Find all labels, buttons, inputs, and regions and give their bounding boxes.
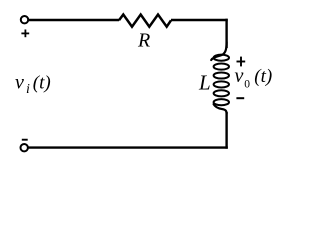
svg-text:i: i — [26, 82, 30, 97]
svg-text:L: L — [198, 71, 211, 95]
svg-text:v: v — [15, 72, 24, 94]
svg-text:(t): (t) — [254, 66, 272, 87]
svg-text:v: v — [235, 65, 244, 87]
svg-text:(t): (t) — [33, 73, 51, 94]
svg-text:0: 0 — [244, 79, 250, 91]
svg-text:R: R — [137, 30, 150, 52]
